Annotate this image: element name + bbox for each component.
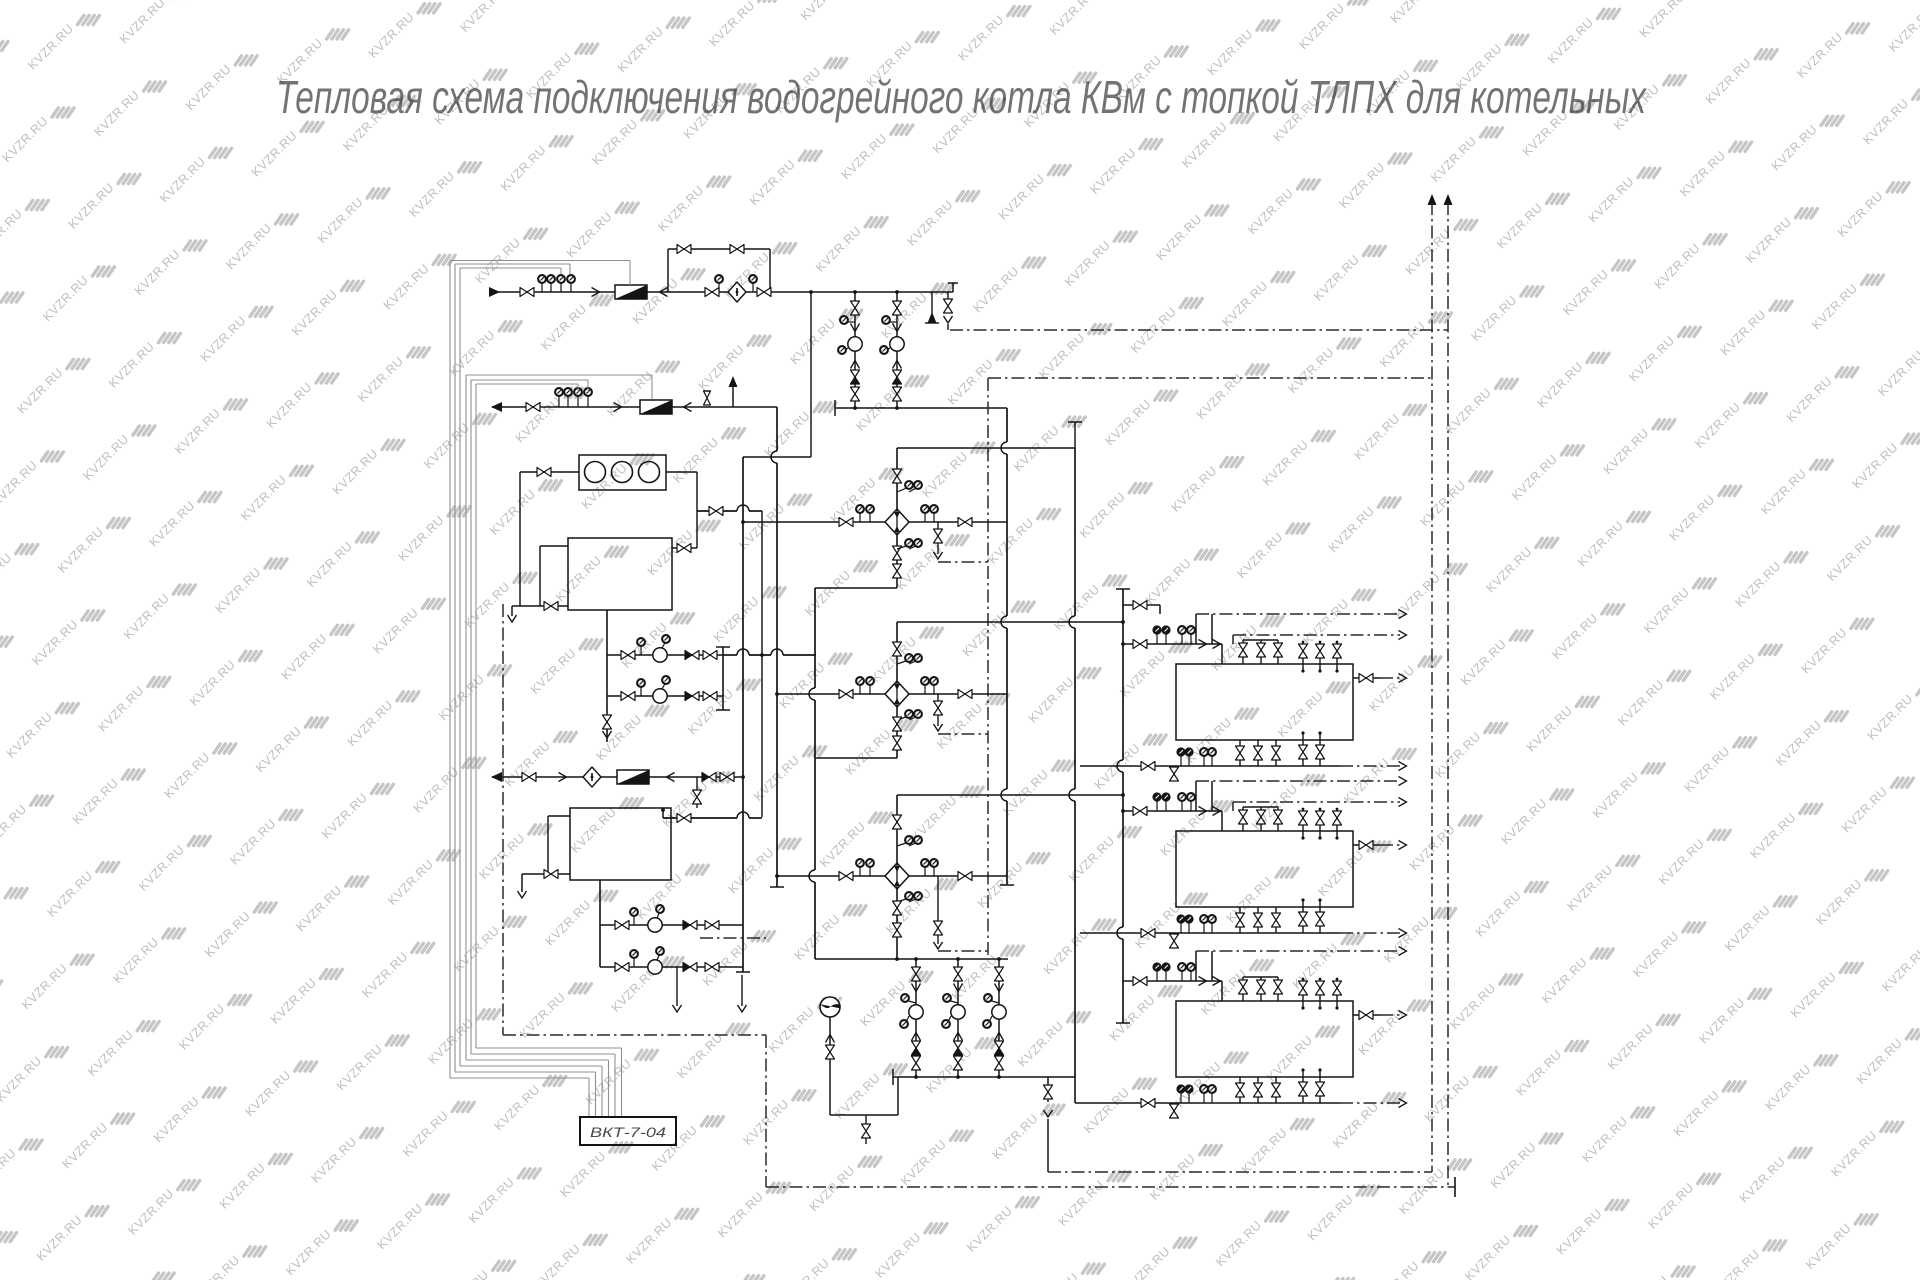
svg-text:Тепловая схема подключения вод: Тепловая схема подключения водогрейного …: [276, 71, 1647, 123]
bypass with valves: [667, 249, 669, 292]
box return line: [1080, 932, 1340, 934]
vent: [931, 292, 933, 314]
distribution header x1123: [1122, 589, 1124, 760]
supply tap to consumers: [1195, 614, 1197, 644]
makeup feed line y511: [697, 510, 737, 512]
boiler 2: [570, 808, 671, 880]
supply riser x1075: [1074, 448, 1076, 616]
pump group box: [579, 455, 666, 490]
hx module 1: [743, 521, 1007, 523]
box feed cluster: [1123, 980, 1222, 982]
box top valves: [1242, 807, 1244, 831]
riser from line1: [810, 292, 812, 457]
air tap: [1232, 635, 1234, 644]
box return line: [1080, 765, 1340, 767]
box right output: [1353, 677, 1380, 679]
box bottom valves: [1239, 1077, 1241, 1103]
box top valves: [1242, 640, 1244, 664]
box bottom valves: [1239, 740, 1241, 766]
box feed cluster: [1123, 810, 1222, 812]
return line 2: [491, 402, 502, 412]
boiler1 pumps: [606, 610, 608, 742]
safety valve: [703, 391, 711, 405]
boiler2 top stub: [662, 808, 664, 818]
consumer box 3: [450, 194, 1455, 1197]
box return line: [1075, 1102, 1340, 1104]
riser to modules return: [1006, 408, 1008, 442]
box bottom valves: [1239, 907, 1241, 933]
expansion tank: [820, 997, 840, 1017]
impulse tube bundle: [450, 260, 630, 262]
suction header: [815, 958, 1008, 960]
boiler2 pumps: [599, 880, 601, 967]
supply tap to consumers: [1195, 951, 1197, 981]
box right output: [1353, 1014, 1380, 1016]
drainage dash-dot: [502, 604, 504, 1035]
boiler 1: [568, 538, 672, 610]
hx module 2: [897, 621, 1123, 623]
network pumps: [914, 957, 918, 961]
box right output: [1353, 844, 1380, 846]
box feed cluster: [1123, 643, 1222, 645]
regulator R1: [615, 285, 647, 299]
riser x815: [814, 588, 816, 688]
boiler1 piping: [520, 471, 579, 473]
consumer supply main: [1431, 202, 1433, 1172]
box top valves: [1242, 977, 1244, 1001]
header drain: [1047, 1077, 1049, 1102]
main riser x743: [742, 457, 744, 972]
supply tap to consumers: [1195, 781, 1197, 811]
hx module 3: [897, 794, 1123, 796]
drain valve to blowdown: [947, 292, 949, 300]
regulator R2: [640, 400, 672, 414]
boiler1 discharge line: [723, 654, 737, 656]
filter F3: [583, 767, 601, 787]
regulator R3: [617, 770, 649, 784]
riser x762: [761, 511, 763, 817]
air tap: [1232, 802, 1234, 811]
bottom main header: [893, 1076, 1075, 1078]
main supply line 1: [489, 287, 500, 297]
heat calculator box: [580, 1117, 676, 1145]
makeup line 3: [491, 772, 502, 782]
pump header: [835, 407, 1007, 409]
svg-text:ВКТ-7-04: ВКТ-7-04: [590, 1124, 666, 1140]
drain stubs: [676, 967, 678, 1006]
header riser stub: [1074, 1077, 1076, 1103]
consumer return main: [1447, 202, 1449, 1187]
recirculation pumps: [853, 290, 857, 294]
riser x777: [776, 407, 778, 451]
blowdown dash-dot lines: [950, 329, 1448, 331]
filter F1: [728, 282, 746, 302]
